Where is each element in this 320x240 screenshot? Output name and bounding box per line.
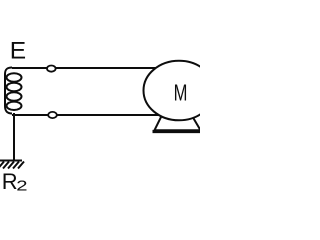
- terminal (bottom, open circle): [48, 112, 57, 118]
- svg-text:M: M: [174, 81, 188, 106]
- terminal (top, open circle): [47, 66, 56, 72]
- svg-text:2: 2: [16, 177, 27, 194]
- wire top (coil top to motor): [12, 67, 158, 69]
- wire bottom (coil bottom to motor base): [12, 114, 162, 116]
- ground symbol: [0, 161, 24, 169]
- inductor coil (winding E): [5, 68, 22, 114]
- motor base (mount trapezoid): [155, 115, 201, 130]
- svg-text:R: R: [2, 169, 18, 194]
- svg-text:E: E: [10, 37, 26, 64]
- wire vertical (to ground): [13, 113, 15, 161]
- motor M (stator circle): [144, 61, 215, 121]
